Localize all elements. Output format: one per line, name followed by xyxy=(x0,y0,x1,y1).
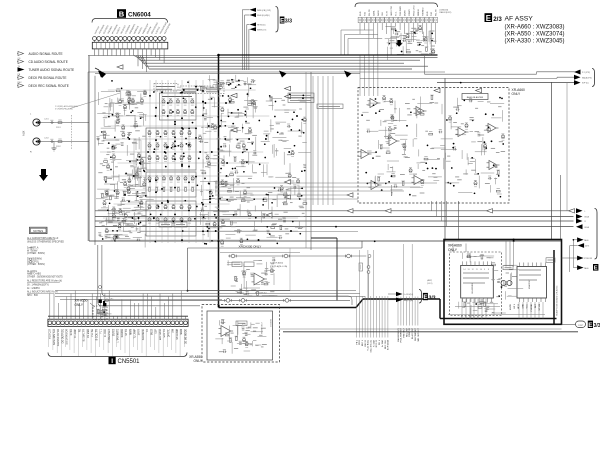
svg-text:S. GAR: S. GAR xyxy=(372,340,375,348)
label boxes bottom of box D xyxy=(159,222,172,227)
svg-text:VDD CLK: VDD CLK xyxy=(50,329,52,340)
svg-text:REC L: REC L xyxy=(362,339,364,346)
svg-text:SRN PWN TLO: SRN PWN TLO xyxy=(54,329,56,345)
connector B CN6004 label xyxy=(117,9,126,18)
svg-text:TUNER AUDIO SIGNAL ROUTE: TUNER AUDIO SIGNAL ROUTE xyxy=(29,68,75,72)
svg-text:GND CTIO: GND CTIO xyxy=(391,5,393,16)
svg-text:V+12 B(14): V+12 B(14) xyxy=(368,340,370,351)
svg-text:RXD: RXD xyxy=(427,11,429,16)
svg-text:PLL TE: PLL TE xyxy=(436,9,438,16)
wires from bass cluster down to buses xyxy=(431,201,433,211)
svg-text:RE: RE xyxy=(79,329,81,333)
jack wiring to board xyxy=(40,122,89,124)
svg-text:5o : 50TLA: 5o : 50TLA xyxy=(27,247,39,250)
svg-text:PB. L: PB. L xyxy=(379,339,381,345)
wires from main block down to bottom buses xyxy=(97,245,99,302)
transistor array box D xyxy=(146,201,196,236)
svg-text:FL L: FL L xyxy=(101,328,103,333)
svg-text:TX: TX xyxy=(147,329,149,332)
bottom boundary wire xyxy=(283,331,578,333)
bottom bus wires xyxy=(55,290,356,292)
svg-text:CN6004: CN6004 xyxy=(128,11,151,18)
svg-text:L: L xyxy=(585,211,586,213)
connector CN5501 body xyxy=(48,315,188,317)
svg-text:(XR-A550 : XWZ3074): (XR-A550 : XWZ3074) xyxy=(505,32,565,38)
open arrows into dashed box xyxy=(434,88,440,92)
svg-text:ADJ/VOL UP 3D: ADJ/VOL UP 3D xyxy=(57,329,60,346)
svg-text:CONT: CONT xyxy=(578,325,584,327)
svg-text:2/3: 2/3 xyxy=(493,16,502,23)
legend: signal route key xyxy=(18,52,24,56)
svg-text:OAC (B 14.1): OAC (B 14.1) xyxy=(370,340,373,353)
transistor array box C xyxy=(146,172,196,197)
svg-text:ALL CAPACITORS ARE IN uF: ALL CAPACITORS ARE IN uF xyxy=(27,237,59,240)
svg-text:(OTHER : 50WV): (OTHER : 50WV) xyxy=(27,264,45,266)
svg-text:I: I xyxy=(111,358,113,365)
inter-sheet stub wires group 2 xyxy=(397,297,399,326)
svg-text:STNBY: STNBY xyxy=(409,8,411,16)
svg-text:BALUN/100(T): BALUN/100(T) xyxy=(397,328,400,342)
thick elbow wire mid xyxy=(311,237,337,239)
inner dashed boundary xyxy=(450,252,502,316)
svg-text:DECK REC SIGNAL ROUTE: DECK REC SIGNAL ROUTE xyxy=(29,84,69,88)
electrolytic capacitors C401 C402 xyxy=(501,281,506,286)
svg-text:MDM: MDM xyxy=(181,329,183,335)
svg-text:PD EMR: PD EMR xyxy=(88,329,90,338)
horizontal trunk wire upper xyxy=(219,54,438,56)
bus wires from CN6004 to right side xyxy=(137,56,438,58)
small dashed box XR-A550 above CN5501 xyxy=(93,306,107,320)
svg-text:SVF (U): SVF (U) xyxy=(582,83,589,85)
svg-text:TUN PWR: TUN PWR xyxy=(400,6,402,16)
middle section cluster xyxy=(206,156,209,159)
svg-text:DPR TL: DPR TL xyxy=(168,328,170,337)
svg-text:(AMP): (AMP) xyxy=(427,279,432,282)
svg-text:POWER/SET: POWER/SET xyxy=(109,328,111,343)
svg-text:ALL RESISTORS ARE IN ohm (k): ALL RESISTORS ARE IN ohm (k) xyxy=(27,279,62,282)
wires top of box xyxy=(452,244,454,253)
svg-text:XR-A660: XR-A660 xyxy=(448,243,462,247)
svg-text:11: 11 xyxy=(476,269,478,271)
junction dots on grid xyxy=(181,127,183,129)
svg-text:VSOL FB/RSET: VSOL FB/RSET xyxy=(401,327,403,343)
right side vertical wires xyxy=(444,78,446,241)
left analog section cluster xyxy=(100,235,103,237)
svg-text:PB R: PB R xyxy=(359,340,361,345)
dashed cable screen line at jacks xyxy=(71,115,73,150)
label box BASS BLASTER xyxy=(462,94,488,100)
left frame wire xyxy=(88,56,90,242)
stub wire with label PB/A xyxy=(391,185,393,196)
svg-text:REC R: REC R xyxy=(365,340,367,347)
svg-text:AUX: AUX xyxy=(22,130,26,136)
frame top wire xyxy=(88,55,219,57)
svg-text:BL-DIAL TR: BL-DIAL TR xyxy=(83,329,86,342)
components below CN6005 xyxy=(414,32,416,34)
wire to right arrow 1 via elbow xyxy=(424,56,426,74)
small rotated label box REGU xyxy=(359,263,363,271)
inner frame bottom wire xyxy=(89,240,562,242)
svg-text:CD AUDIO SIGNAL ROUTE: CD AUDIO SIGNAL ROUTE xyxy=(29,60,68,64)
dashed label boxes row top xyxy=(154,84,178,92)
svg-text:PRESET/ECT: PRESET/ECT xyxy=(262,321,264,334)
svg-text:TX R: TX R xyxy=(387,11,389,16)
sheet marker E at bottom right arrow xyxy=(593,264,598,271)
svg-text:(XR-A660 : XWZ3083): (XR-A660 : XWZ3083) xyxy=(505,25,565,31)
row wires through block xyxy=(108,89,256,91)
svg-text:RADIO(DXX): RADIO(DXX) xyxy=(440,11,452,14)
svg-text:DE ME MODE: DE ME MODE xyxy=(185,329,187,344)
black route arrow down at left margin xyxy=(39,169,48,181)
main vertical trunk wire xyxy=(218,55,220,308)
top strip components xyxy=(220,83,224,85)
inter-board arrows bottom right xyxy=(577,237,584,242)
svg-text:ONLY: ONLY xyxy=(75,303,84,307)
svg-text:RXD: RXD xyxy=(360,11,362,16)
connector CN6004 body xyxy=(92,42,168,49)
mid horizontal wires to right section xyxy=(215,182,437,184)
board outline XR-A660 only (bottom right) xyxy=(444,240,562,325)
svg-text:HEADPHONE BOARD (XR-A660): HEADPHONE BOARD (XR-A660) xyxy=(556,285,559,316)
svg-text:A. SAR: A. SAR xyxy=(381,340,384,347)
connector CN5501 underbrace xyxy=(48,353,187,357)
svg-text:MAIN: MAIN xyxy=(129,329,132,335)
svg-text:(CN6003): (CN6003) xyxy=(440,10,449,12)
svg-text:NPC : 500: NPC : 500 xyxy=(27,295,38,297)
svg-text:FL VCC: FL VCC xyxy=(105,329,107,338)
wires from CN6004 descending xyxy=(94,49,96,56)
svg-text:REC: REC xyxy=(18,82,23,84)
svg-text:R421: R421 xyxy=(466,315,468,319)
svg-text:EXP TR: EXP TR xyxy=(164,329,166,338)
connector CN6004 bracket xyxy=(92,19,168,23)
svg-text:GND: GND xyxy=(522,304,524,309)
dashed boundary XR-A550 only (bottom) xyxy=(202,305,280,363)
svg-text:E: E xyxy=(423,294,427,301)
svg-text:6 UR(NF)(PB)-A550): 6 UR(NF)(PB)-A550) xyxy=(55,108,73,111)
svg-text:PH-D CTIO: PH-D CTIO xyxy=(413,5,415,16)
svg-text:ESP: ESP xyxy=(156,329,158,334)
svg-text:TXD: TXD xyxy=(431,11,433,16)
svg-text:ANA TO-ABS: ANA TO-ABS xyxy=(27,272,41,275)
svg-text:V+13 B(14): V+13 B(14) xyxy=(404,294,414,296)
transistor array box B xyxy=(146,128,196,170)
svg-text:CN5501: CN5501 xyxy=(118,359,141,365)
bass blaster op-amp circuits xyxy=(370,99,378,108)
inter-sheet connector E3/3 top xyxy=(250,8,257,12)
svg-text:C414: C414 xyxy=(478,315,480,319)
svg-text:SOUND: SOUND xyxy=(122,329,124,338)
dashed boundary XR-A660 only (top) xyxy=(358,88,509,204)
svg-text:XR-A550: XR-A550 xyxy=(189,355,202,359)
wires to bottom right arrows xyxy=(573,239,577,241)
IC U2 headphone amp xyxy=(517,267,547,299)
input jack R (AUX) xyxy=(33,138,40,145)
svg-text:9AV(9V)(A): 9AV(9V)(A) xyxy=(404,299,414,302)
svg-text:ROC. R: ROC. R xyxy=(376,340,378,348)
svg-text:XB-B (D)-W(D): XB-B (D)-W(D) xyxy=(257,15,270,17)
wire into E3/3 pill xyxy=(562,323,576,325)
svg-text:SOUNDTA: SOUNDTA xyxy=(142,329,145,341)
svg-text:ALL INDUCTORS ARE IN uH: ALL INDUCTORS ARE IN uH xyxy=(27,291,58,294)
svg-text:WR. SET/ECT: WR. SET/ECT xyxy=(418,327,420,341)
svg-text:TI LAMP: TI LAMP xyxy=(74,329,77,339)
wire to right arrow 2 xyxy=(360,77,557,79)
svg-text:WRW (CY): WRW (CY) xyxy=(257,29,267,31)
svg-text:EXP DATA: EXP DATA xyxy=(387,339,390,350)
svg-text:SIR R: SIR R xyxy=(139,329,141,336)
svg-text:DACK: DACK xyxy=(377,10,380,16)
svg-text:SP SW: SP SW xyxy=(539,304,541,311)
inner pcb box xyxy=(207,311,273,360)
svg-text:EXP DATA: EXP DATA xyxy=(159,329,162,341)
svg-text:12: 12 xyxy=(472,269,474,271)
svg-text:(XX R): (XX R) xyxy=(427,283,433,285)
long audio bus wires to right edge xyxy=(95,210,574,212)
svg-text:STEREO: STEREO xyxy=(422,7,424,16)
svg-text:ONLY: ONLY xyxy=(194,359,203,363)
inner frame top wire xyxy=(88,71,445,73)
svg-text:2A00: 2A00 xyxy=(584,239,588,242)
input jack L (AUX) xyxy=(33,119,40,126)
wire with inline caps y256 xyxy=(228,255,366,257)
svg-text:13: 13 xyxy=(468,269,470,271)
svg-text:WREN: WREN xyxy=(418,9,420,16)
svg-text:4073: 4073 xyxy=(585,246,589,248)
svg-text:MUTE: MUTE xyxy=(405,9,407,16)
svg-text:14: 14 xyxy=(463,269,465,271)
open arrows mid block xyxy=(231,93,237,97)
svg-text:10: 10 xyxy=(480,269,482,271)
svg-text:WRB (CB) (YW): WRB (CB) (YW) xyxy=(257,10,271,12)
column bus wires through block xyxy=(149,80,151,243)
long wires from CN6005 to bass blaster box xyxy=(359,55,361,96)
svg-text:(XR-A330 : XWZ3045): (XR-A330 : XWZ3045) xyxy=(505,39,565,45)
svg-text:R425: R425 xyxy=(482,315,484,319)
svg-text:VOLUME: VOLUME xyxy=(271,318,273,327)
svg-text:3728/OFF: 3728/OFF xyxy=(584,258,593,260)
xr-a330 board box xyxy=(187,248,189,291)
bus wires inside box bottom xyxy=(455,306,500,308)
svg-text:DO DATA/VDR: DO DATA/VDR xyxy=(66,329,69,345)
inter-sheet stub wires group 1 xyxy=(356,296,358,338)
notes symbols xyxy=(30,247,33,251)
signal arrow down at CN6005 cluster xyxy=(396,40,403,47)
svg-text:PHONE: PHONE xyxy=(531,303,533,311)
open arrows on audio bus xyxy=(487,209,493,213)
svg-text:R423: R423 xyxy=(474,315,476,319)
connector CN6005 bracket xyxy=(355,3,438,7)
connector CN6005 pins xyxy=(358,17,362,22)
svg-text:1k : 1/4MPU: 1k : 1/4MPU xyxy=(27,288,40,290)
svg-text:HP-F(CD): HP-F(CD) xyxy=(257,25,266,27)
svg-text:XRCA330 ONLY: XRCA330 ONLY xyxy=(239,244,262,248)
svg-text:BULB: BULB xyxy=(152,329,154,336)
svg-text:ST TR: ST TR xyxy=(126,329,128,336)
bus riser wires to CN5501 xyxy=(49,294,51,317)
svg-text:EVR S: EVR S xyxy=(113,329,115,336)
connector I CN5501 label xyxy=(109,357,116,364)
svg-text:E: E xyxy=(486,14,491,23)
thick internal bus in box xyxy=(553,250,555,324)
svg-text:00 : 1/4W(5%)(50TY): 00 : 1/4W(5%)(50TY) xyxy=(27,285,49,287)
svg-text:L-TAB MUTE: L-TAB MUTE xyxy=(117,329,120,343)
svg-text:3/3: 3/3 xyxy=(285,19,292,25)
svg-text:E: E xyxy=(594,265,598,271)
label box pair right xyxy=(288,93,314,98)
svg-text:MUTE: MUTE xyxy=(510,303,512,310)
svg-text:ST/COMB: ST/COMB xyxy=(177,329,179,340)
svg-text:2 UR(NF)-A550 A330 A660: 2 UR(NF)-A550 A330 A660 xyxy=(55,105,78,108)
svg-text:SADA (3?X): SADA (3?X) xyxy=(582,76,592,79)
svg-text:FM PWR/SET: FM PWR/SET xyxy=(415,327,417,341)
main block right vertical wires xyxy=(305,72,307,248)
wire to right arrow 3 xyxy=(437,82,574,84)
wires below ICs xyxy=(461,299,463,319)
svg-text:OTHER : 50/50WV(50V)/5TY50T5: OTHER : 50/50WV(50V)/5TY50T5 xyxy=(27,277,63,279)
wires from CN6005 going left xyxy=(341,29,373,31)
black route arrow at left xyxy=(99,70,106,78)
svg-text:(OTHER : 50WV): (OTHER : 50WV) xyxy=(27,253,45,255)
svg-text:BU4558DF: BU4558DF xyxy=(472,282,474,293)
transistor array box A xyxy=(160,93,197,120)
svg-text:8: 8 xyxy=(488,269,489,271)
notes box xyxy=(30,227,48,233)
title sheet marker E 2/3 xyxy=(485,13,493,22)
svg-text:[XX]: [XX] xyxy=(242,324,246,326)
svg-text:AF ASSY: AF ASSY xyxy=(505,16,534,23)
wires into box top right xyxy=(505,241,507,267)
svg-text:SPKR: SPKR xyxy=(71,329,73,336)
wires xr-a330 xyxy=(220,252,300,254)
small parts inside box xyxy=(489,257,493,259)
svg-text:3/3: 3/3 xyxy=(429,296,436,302)
svg-text:TL LAMP: TL LAMP xyxy=(134,329,137,339)
svg-text:E: E xyxy=(588,322,593,329)
label box PONT xyxy=(546,258,555,263)
svg-text:B: B xyxy=(119,10,125,19)
svg-text:DECK PB SIGNAL ROUTE: DECK PB SIGNAL ROUTE xyxy=(29,76,67,80)
xr-a550 op-amp circuit xyxy=(221,326,231,337)
wire bends at left of bus xyxy=(134,56,137,58)
svg-text:AL : COIL: AL : COIL xyxy=(27,270,38,273)
svg-text:CLK: CLK xyxy=(382,11,384,16)
svg-text:E: E xyxy=(280,18,284,24)
svg-text:UNLESS OTHERWISE SPECIFIED: UNLESS OTHERWISE SPECIFIED xyxy=(27,242,64,244)
wire with inline caps y300 xyxy=(104,299,350,301)
vertical wires in middle area xyxy=(312,76,314,205)
svg-text:C410: C410 xyxy=(462,315,464,319)
svg-text:(PB)(PLA)(NL-LC/A): (PB)(PLA)(NL-LC/A) xyxy=(270,265,287,268)
svg-text:PLL TE: PLL TE xyxy=(369,9,371,16)
inter-sheet connector E3/3 pill xyxy=(576,321,586,328)
svg-text:DET: DET xyxy=(535,303,537,308)
IC U1 BU4558DF xyxy=(461,265,494,298)
trunk elbow to bottom right bus xyxy=(219,307,357,309)
right of middle cluster xyxy=(268,176,273,178)
svg-text:P-Y (3?R): P-Y (3?R) xyxy=(582,72,590,74)
svg-text:AUDIO SIGNAL ROUTE: AUDIO SIGNAL ROUTE xyxy=(29,52,63,56)
svg-text:ONLY: ONLY xyxy=(512,92,522,96)
junction dots sprinkled xyxy=(116,236,118,238)
svg-text:NOTES: NOTES xyxy=(33,229,43,233)
svg-text:REC CLK: REC CLK xyxy=(385,339,387,349)
svg-text:TXD: TXD xyxy=(364,11,366,16)
svg-text:PLL SE: PLL SE xyxy=(92,329,94,337)
connector CN6004 pins xyxy=(93,37,97,41)
svg-text:VCC: VCC xyxy=(527,304,529,309)
svg-text:2A00: 2A00 xyxy=(584,267,588,270)
svg-text:DATA: DATA xyxy=(372,10,375,16)
svg-text:3/3: 3/3 xyxy=(594,323,600,329)
svg-text:HP R: HP R xyxy=(518,304,520,309)
wires from E3/3 top going left and down xyxy=(242,9,249,11)
xr-a330 op-amp circuit xyxy=(254,273,264,285)
svg-text:9: 9 xyxy=(484,269,485,271)
svg-text:DG OUT/VOL: DG OUT/VOL xyxy=(62,328,64,343)
route arrow markers on top wire xyxy=(98,71,106,78)
inter-board arrows right top xyxy=(574,70,581,75)
ground symbol below jacks xyxy=(53,142,55,149)
audio output arrows right middle xyxy=(576,208,583,213)
wire label pointer xyxy=(70,93,120,109)
svg-text:B-COIL TR: B-COIL TR xyxy=(96,329,98,341)
wires from CN6005 down into board xyxy=(359,23,361,34)
